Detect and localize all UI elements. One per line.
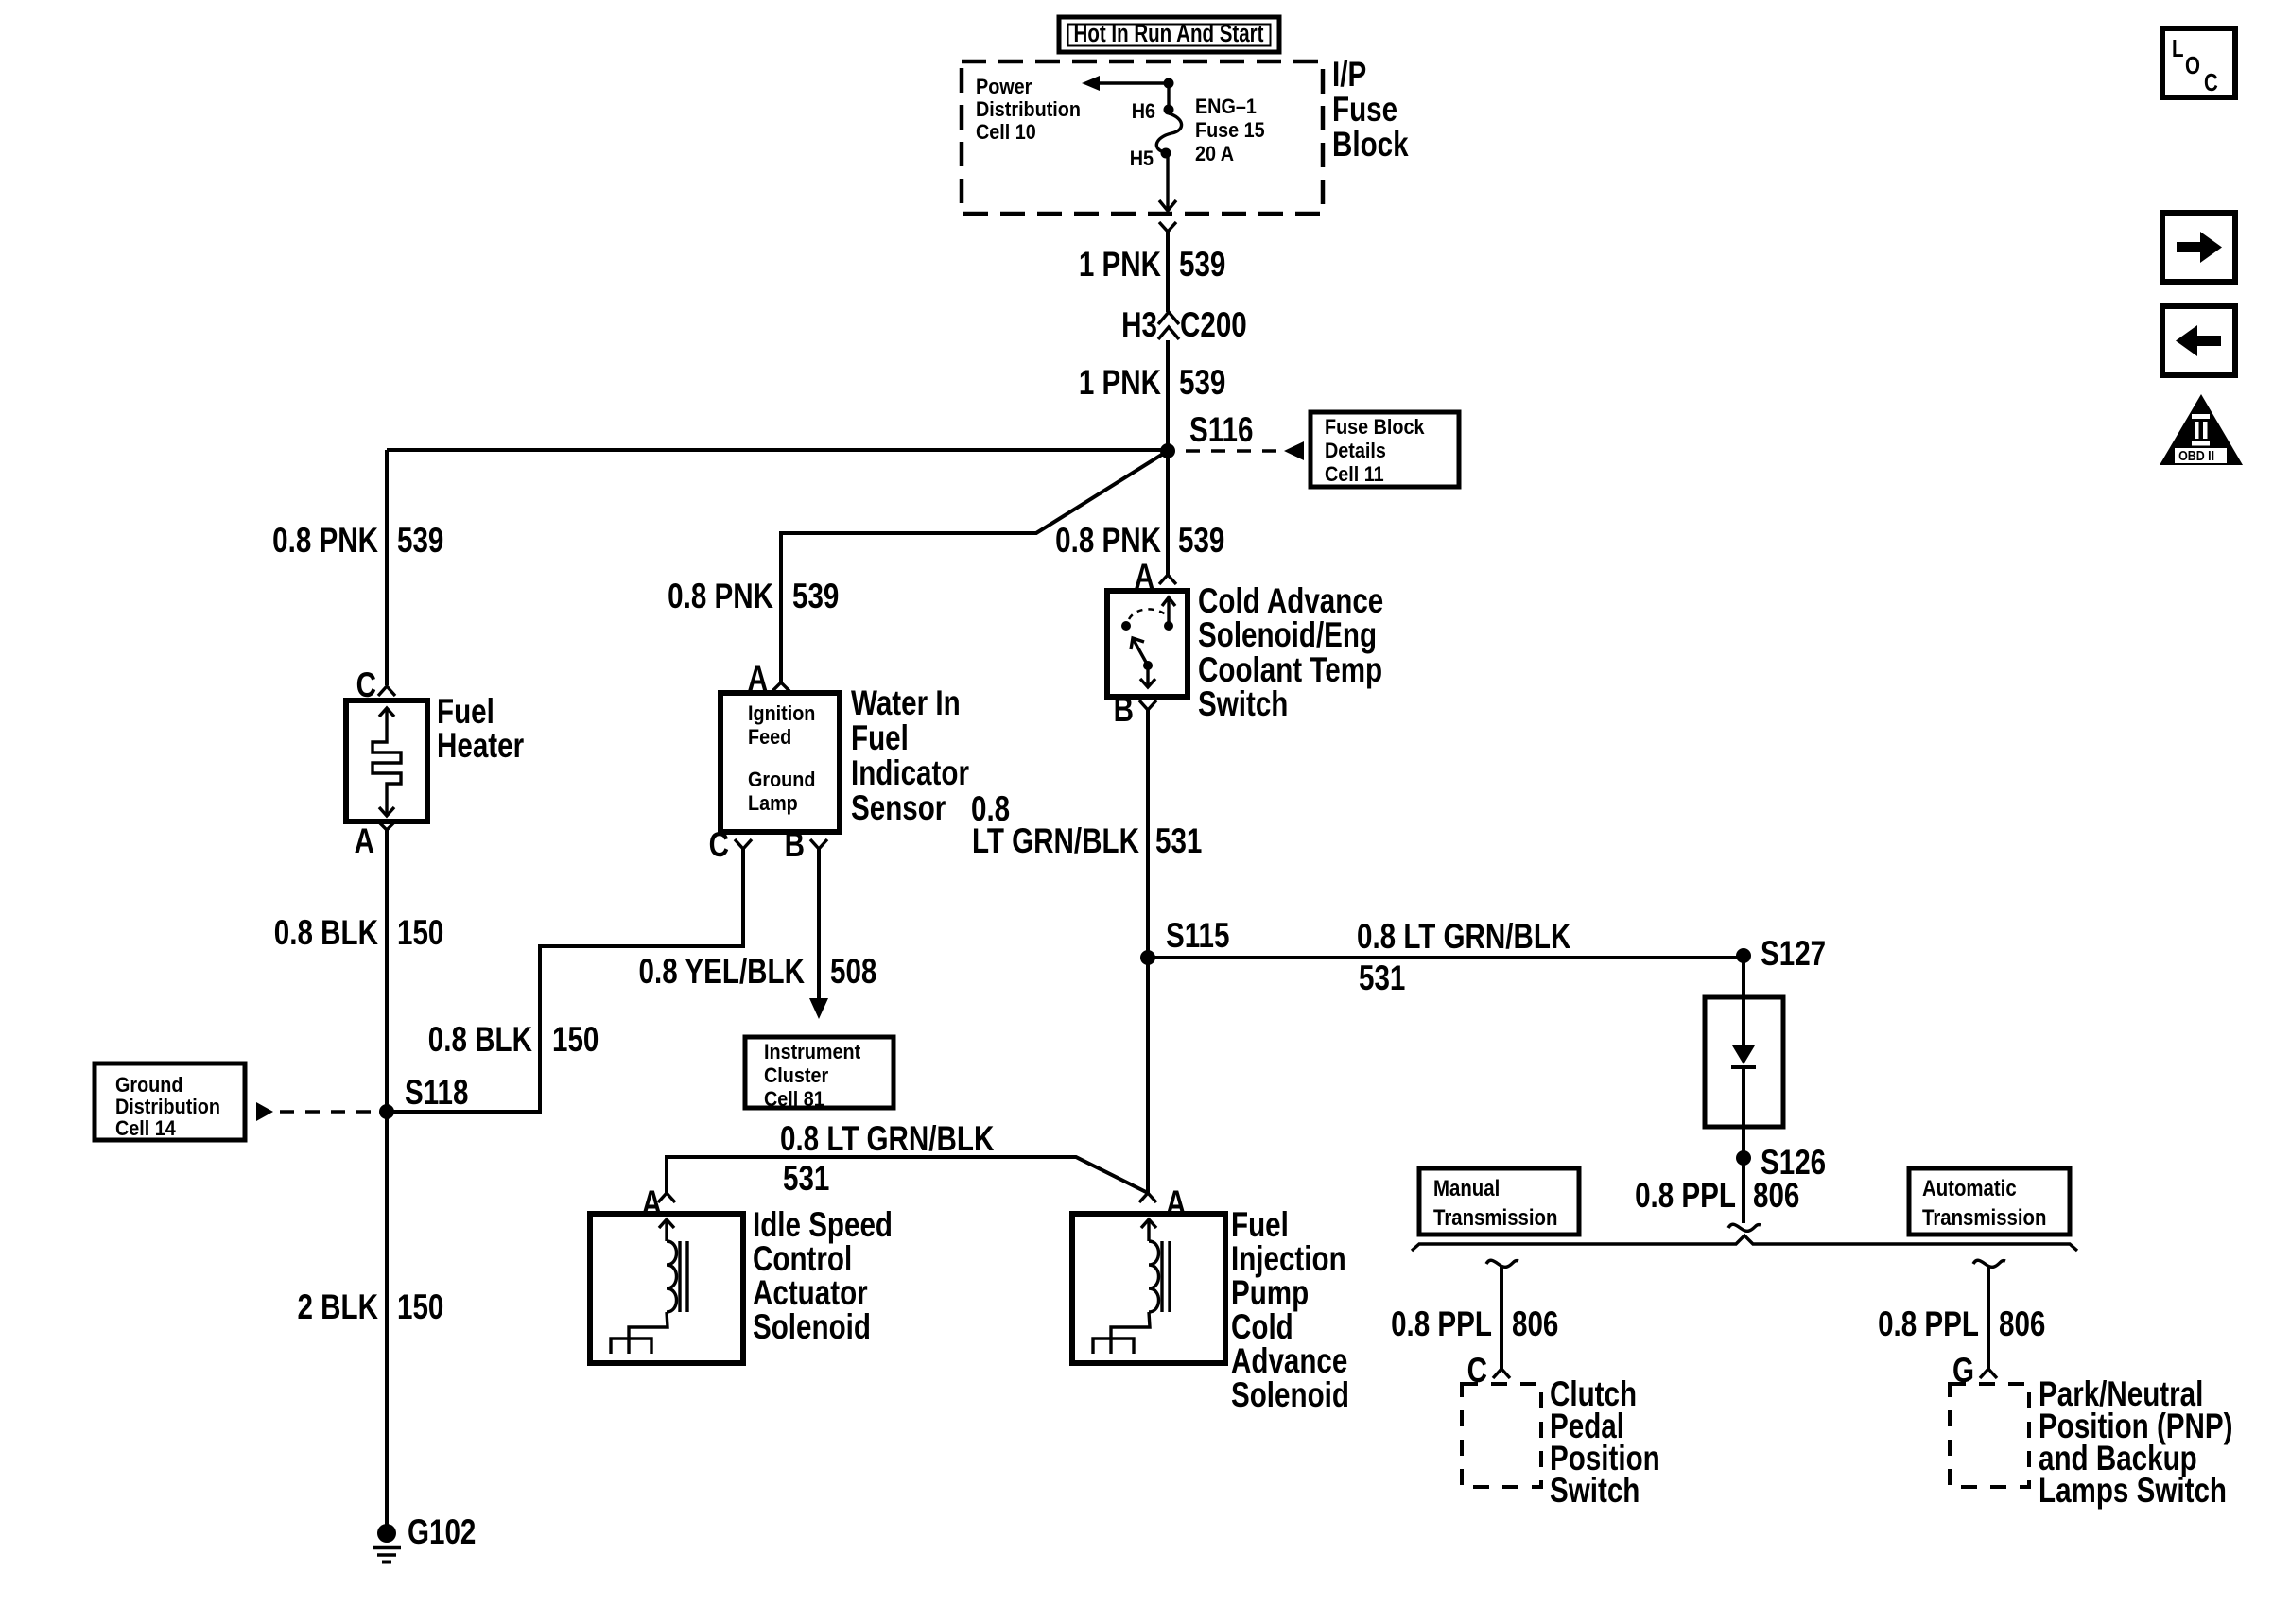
svg-text:Block: Block [1332, 126, 1409, 164]
wire: S118 to sensor pin C [387, 849, 743, 1112]
svg-text:Switch: Switch [1198, 685, 1288, 724]
label: 0.8 PNK 539 (sensor) [668, 578, 839, 616]
label: 0.8 LT GRN/BLK 531 (S115-S127) [1357, 918, 1570, 998]
splice S116 [1160, 411, 1253, 458]
wire: H5 down to fuse block edge with arrow [1159, 157, 1176, 211]
wire break symbol (center) [1728, 1224, 1761, 1231]
svg-text:0.8 BLK: 0.8 BLK [428, 1021, 532, 1060]
svg-text:Ground: Ground [115, 1074, 182, 1097]
svg-text:C: C [709, 826, 729, 865]
wire: down to Fuel Heater [385, 450, 389, 685]
svg-text:Fuse Block: Fuse Block [1325, 416, 1425, 439]
svg-text:150: 150 [397, 914, 443, 953]
svg-text:Transmission: Transmission [1922, 1204, 2046, 1230]
svg-text:Lamps Switch: Lamps Switch [2039, 1472, 2227, 1511]
I/P fuse block dashed outline [962, 61, 1323, 214]
svg-text:Solenoid/Eng: Solenoid/Eng [1198, 616, 1377, 655]
wire: S126 down to break [1742, 1158, 1745, 1223]
svg-text:Indicator: Indicator [851, 754, 969, 793]
svg-text:539: 539 [1179, 364, 1225, 403]
wire: manual branch to clutch switch [1500, 1267, 1503, 1369]
svg-text:B: B [785, 826, 805, 865]
svg-text:0.8 BLK: 0.8 BLK [274, 914, 378, 953]
connector pin C of sensor [709, 826, 752, 865]
label: ENG-1 Fuse 15 20 A [1195, 95, 1265, 165]
wire: S116 down to Cold Advance switch [1166, 451, 1170, 575]
wire: S116 diagonal to sensor feed [781, 451, 1168, 682]
fuel heater FH1 [346, 700, 427, 821]
svg-text:Coolant Temp: Coolant Temp [1198, 651, 1382, 690]
svg-text:Cell 14: Cell 14 [115, 1117, 176, 1140]
connector pin B of sensor [785, 826, 827, 865]
wire: auto branch to PNP switch [1987, 1267, 1990, 1369]
water in fuel indicator sensor [720, 693, 840, 832]
svg-text:Cold Advance: Cold Advance [1198, 582, 1383, 621]
svg-text:Switch: Switch [1550, 1472, 1640, 1511]
svg-text:0.8 PNK: 0.8 PNK [272, 522, 378, 561]
wire: idle speed actuator branch [667, 1157, 1148, 1193]
label: Fuel Injection Pump Cold Advance Solenoid [1231, 1206, 1349, 1415]
label: 0.8 PPL 806 (manual) [1391, 1305, 1558, 1344]
wire: sensor B to Instrument Cluster [809, 849, 828, 1019]
svg-text:Fuse 15: Fuse 15 [1195, 119, 1265, 142]
svg-text:Hot In Run And Start: Hot In Run And Start [1074, 20, 1264, 47]
svg-text:0.8 PPL: 0.8 PPL [1635, 1177, 1736, 1216]
svg-text:806: 806 [1753, 1177, 1799, 1216]
pin H5 [1161, 148, 1171, 159]
icon: OBD II triangle [2160, 394, 2243, 465]
svg-text:Automatic: Automatic [1922, 1175, 2017, 1201]
label box: Hot In Run And Start [1059, 17, 1279, 52]
svg-text:Fuse: Fuse [1332, 91, 1397, 130]
svg-text:150: 150 [397, 1288, 443, 1327]
svg-text:Instrument: Instrument [764, 1041, 860, 1063]
svg-text:ENG–1: ENG–1 [1195, 95, 1257, 118]
svg-text:Water In: Water In [851, 684, 961, 723]
wire break symbol (manual branch) [1486, 1260, 1518, 1267]
svg-text:I/P: I/P [1332, 56, 1366, 95]
svg-text:806: 806 [1512, 1305, 1558, 1344]
label: Cold Advance Solenoid/Eng Coolant Temp Switch [1198, 582, 1383, 724]
wire: Cold Advance B down to fuel injection pump [1146, 710, 1150, 1193]
svg-text:Ignition: Ignition [748, 702, 815, 725]
svg-text:A: A [642, 1184, 662, 1223]
reference box: Manual Transmission [1419, 1168, 1579, 1235]
splice S118 [379, 1074, 468, 1119]
svg-text:539: 539 [397, 522, 443, 561]
splice S115 [1140, 917, 1229, 965]
svg-text:L: L [2172, 35, 2184, 62]
svg-text:S115: S115 [1166, 917, 1229, 956]
connector pin G of PNP switch [1952, 1352, 1997, 1391]
label: 0.8 PPL 806 (center) [1635, 1177, 1799, 1216]
svg-text:Solenoid: Solenoid [753, 1308, 871, 1347]
label: 0.8 LT GRN/BLK 531 (upper) [971, 790, 1202, 861]
connector pin A of idle actuator [642, 1184, 675, 1223]
svg-text:G102: G102 [408, 1513, 476, 1552]
label: Idle Speed Control Actuator Solenoid [753, 1206, 893, 1347]
diode D1 [1731, 1045, 1756, 1067]
svg-text:S127: S127 [1761, 935, 1826, 974]
label: Water In Fuel Indicator Sensor [851, 684, 969, 828]
icon: LOC box [2162, 28, 2235, 97]
svg-text:Heater: Heater [437, 727, 524, 766]
svg-text:O: O [2185, 52, 2200, 79]
connector H3 / C200 [1121, 306, 1247, 445]
icon: forward arrow box [2162, 213, 2235, 282]
wire: arrow to Power Distribution [1082, 76, 1169, 91]
label: 0.8 BLK 150 (left) [274, 914, 444, 953]
svg-text:Manual: Manual [1433, 1175, 1500, 1201]
svg-text:0.8 YEL/BLK: 0.8 YEL/BLK [639, 953, 805, 992]
label: Clutch Pedal Position Switch [1550, 1375, 1660, 1511]
label: Power Distribution Cell 10 [976, 76, 1081, 144]
svg-text:20 A: 20 A [1195, 143, 1234, 165]
svg-text:Fuel: Fuel [851, 719, 909, 758]
svg-text:Transmission: Transmission [1433, 1204, 1557, 1230]
connector: fuse block output terminal [1159, 222, 1176, 312]
svg-text:A: A [1166, 1184, 1186, 1223]
svg-text:531: 531 [1155, 822, 1202, 861]
svg-text:Lamp: Lamp [748, 792, 798, 815]
svg-text:150: 150 [552, 1021, 599, 1060]
connector pin A of fuel injection pump solenoid [1139, 1184, 1186, 1223]
svg-text:H3: H3 [1121, 306, 1157, 345]
svg-text:Advance: Advance [1231, 1342, 1347, 1381]
label: 0.8 YEL/BLK 508 [639, 953, 877, 992]
svg-text:0.8 LT GRN/BLK: 0.8 LT GRN/BLK [1357, 918, 1570, 957]
wire: S127 to diode [1742, 958, 1745, 1047]
svg-text:C: C [2204, 69, 2218, 96]
wire: S116 horizontal left [387, 448, 1168, 452]
connector pin B of Cold Advance switch [1114, 691, 1156, 730]
node: fuse feed junction [1164, 78, 1174, 89]
svg-text:Injection: Injection [1231, 1240, 1346, 1279]
connector pin C of Fuel Heater [356, 666, 395, 705]
label: Fuel Heater [437, 693, 524, 766]
svg-text:Cell 81: Cell 81 [764, 1088, 824, 1111]
pin H6 [1164, 105, 1174, 115]
label: 1 PNK 539 (lower) [1079, 364, 1226, 403]
wire: junction to H6 [1167, 83, 1170, 107]
svg-text:508: 508 [830, 953, 876, 992]
svg-text:531: 531 [1359, 959, 1405, 998]
connector pin A of sensor [748, 660, 789, 699]
label: 0.8 PNK 539 (cold advance branch) [1055, 522, 1224, 561]
svg-text:S118: S118 [405, 1074, 468, 1113]
label: 0.8 BLK 150 (right) [428, 1021, 599, 1060]
svg-text:1 PNK: 1 PNK [1079, 364, 1161, 403]
svg-text:Sensor: Sensor [851, 789, 946, 828]
fuel injection pump cold advance solenoid [1072, 1214, 1225, 1363]
splice S126 [1736, 1144, 1826, 1183]
wire: S115 to S127 [1148, 956, 1744, 959]
svg-text:Cell 11: Cell 11 [1325, 463, 1384, 486]
svg-text:Pump: Pump [1231, 1274, 1309, 1313]
clutch pedal position switch (dashed) [1462, 1384, 1541, 1487]
svg-text:A: A [355, 822, 374, 861]
svg-text:Distribution: Distribution [976, 98, 1081, 121]
svg-text:Feed: Feed [748, 726, 791, 749]
reference box: Instrument Cluster Cell 81 [745, 1037, 894, 1111]
label: Park/Neutral Position (PNP) and Backup Lamps Switch [2039, 1375, 2233, 1511]
connector pin A of Fuel Heater [355, 821, 395, 861]
wire: diode to S126 [1742, 1067, 1745, 1158]
idle speed control actuator solenoid [590, 1214, 743, 1363]
svg-text:H5: H5 [1130, 147, 1154, 170]
svg-text:539: 539 [1179, 246, 1225, 285]
svg-text:0.8 PPL: 0.8 PPL [1878, 1305, 1979, 1344]
svg-text:Solenoid: Solenoid [1231, 1376, 1349, 1415]
splice S127 [1736, 935, 1826, 974]
reference box: Fuse Block Details Cell 11 [1310, 412, 1459, 487]
wire: Fuel Heater to G102 [385, 830, 389, 1526]
wire break symbol (auto branch) [1973, 1260, 2005, 1267]
label: 2 BLK 150 [297, 1288, 443, 1327]
transmission option brace [1412, 1235, 2077, 1251]
svg-text:Cluster: Cluster [764, 1064, 828, 1087]
svg-text:2 BLK: 2 BLK [297, 1288, 378, 1327]
svg-text:Actuator: Actuator [753, 1274, 868, 1313]
svg-text:Control: Control [753, 1240, 852, 1279]
svg-text:0.8 LT GRN/BLK: 0.8 LT GRN/BLK [780, 1120, 994, 1159]
svg-text:531: 531 [783, 1160, 829, 1199]
label: 0.8 PNK 539 (fuel heater branch) [272, 522, 443, 561]
svg-text:539: 539 [1178, 522, 1224, 561]
fuse ENG-1 element [1156, 113, 1181, 152]
svg-text:C200: C200 [1180, 306, 1247, 345]
label: 0.8 PPL 806 (auto) [1878, 1305, 2045, 1344]
svg-text:B: B [1114, 691, 1134, 730]
label: 1 PNK 539 (upper) [1079, 246, 1226, 285]
dashed reference line S116 to Fuse Block Details [1186, 441, 1304, 460]
svg-text:1 PNK: 1 PNK [1079, 246, 1161, 285]
svg-text:S116: S116 [1189, 411, 1253, 450]
dashed reference line Ground Distribution to S118 [256, 1102, 376, 1121]
svg-text:LT GRN/BLK: LT GRN/BLK [972, 822, 1139, 861]
svg-text:0.8 PPL: 0.8 PPL [1391, 1305, 1492, 1344]
park/neutral position switch (dashed) [1950, 1384, 2029, 1487]
icon: back arrow box [2162, 306, 2235, 375]
ground G102 [373, 1513, 476, 1562]
reference box: Ground Distribution Cell 14 [95, 1063, 245, 1140]
cold advance solenoid / coolant temp switch [1107, 591, 1188, 697]
svg-text:OBD II: OBD II [2178, 448, 2214, 463]
svg-text:Cold: Cold [1231, 1308, 1293, 1347]
label: 0.8 LT GRN/BLK 531 (idle branch) [780, 1120, 994, 1199]
svg-text:Fuel: Fuel [437, 693, 495, 732]
svg-text:539: 539 [792, 578, 839, 616]
connector pin A of Cold Advance switch [1135, 558, 1176, 596]
label: I/P Fuse Block [1332, 56, 1409, 164]
svg-text:0.8 PNK: 0.8 PNK [1055, 522, 1161, 561]
svg-text:Power: Power [976, 76, 1032, 98]
reference box: Automatic Transmission [1909, 1168, 2070, 1235]
svg-text:Distribution: Distribution [115, 1096, 220, 1118]
svg-text:0.8 PNK: 0.8 PNK [668, 578, 773, 616]
svg-text:Cell 10: Cell 10 [976, 121, 1036, 144]
svg-text:806: 806 [1999, 1305, 2045, 1344]
svg-text:Idle Speed: Idle Speed [753, 1206, 893, 1245]
connector pin C of clutch switch [1467, 1352, 1510, 1391]
svg-text:H6: H6 [1132, 100, 1155, 123]
diode assembly box [1705, 997, 1783, 1127]
svg-text:Ground: Ground [748, 769, 815, 791]
svg-text:Fuel: Fuel [1231, 1206, 1289, 1245]
svg-text:Details: Details [1325, 440, 1386, 462]
